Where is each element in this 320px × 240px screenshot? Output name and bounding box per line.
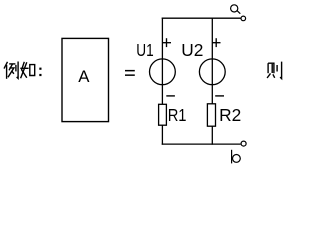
text 例如： colon dots — [39, 68, 41, 77]
wire bottom (node b rail) — [162, 143, 241, 145]
equals sign — [125, 70, 135, 76]
svg-text:R2: R2 — [219, 105, 241, 125]
text 则 — [267, 62, 282, 79]
svg-text:U1: U1 — [136, 40, 153, 60]
plus sign U1 — [162, 38, 171, 47]
voltage source U2 — [199, 59, 225, 85]
svg-text:U2: U2 — [181, 40, 203, 60]
svg-text:R1: R1 — [168, 105, 187, 125]
wire branch 2 (U2-R2) — [211, 18, 213, 145]
terminal a — [241, 16, 246, 21]
node a label — [231, 5, 241, 14]
svg-text:A: A — [78, 67, 90, 86]
wire branch 1 (U1-R1) — [161, 18, 163, 145]
network box A — [62, 38, 109, 121]
例 char — [4, 62, 8, 69]
wire top (node a rail) — [162, 17, 241, 19]
如 char — [22, 62, 27, 78]
minus sign U2 — [215, 95, 224, 97]
node b label — [232, 150, 241, 164]
resistor R2 — [207, 104, 215, 126]
resistor R1 — [159, 104, 167, 125]
voltage source U1 — [150, 59, 176, 85]
text 例如： — [4, 62, 35, 79]
minus sign U1 — [166, 95, 175, 97]
terminal b — [241, 141, 246, 146]
plus sign U2 — [212, 38, 221, 47]
